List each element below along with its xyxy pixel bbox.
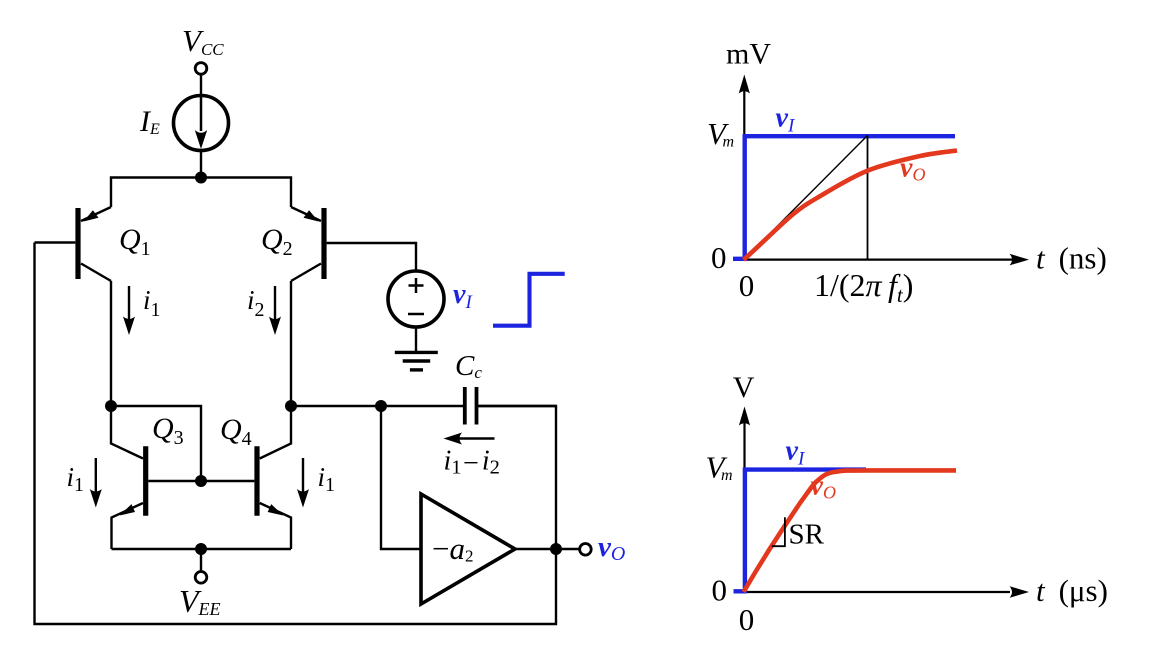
wire IE to tail node	[200, 151, 202, 178]
current arrow i2 (Q2 collector)	[274, 286, 276, 321]
op-amp A2	[421, 494, 515, 604]
y axis graph2	[743, 423, 745, 592]
wire amp output	[515, 548, 580, 550]
current source IE	[174, 96, 229, 151]
svg-text:0: 0	[711, 240, 727, 275]
tangent line graph1	[744, 136, 868, 260]
capacitor Cc	[463, 387, 467, 425]
wire Q1 base to feedback loop	[35, 241, 76, 243]
ground	[395, 351, 438, 354]
wire VCC to IE	[200, 75, 202, 96]
source vI	[388, 271, 444, 327]
wire Q3 Q4 base rail	[148, 480, 254, 482]
transistor Q1	[75, 208, 80, 279]
terminal VCC	[195, 63, 207, 75]
wire to VEE terminal	[200, 549, 202, 571]
output curve vO graph2	[744, 470, 957, 592]
current arrow i1 (Q3 emitter)	[95, 458, 97, 493]
svg-text:0: 0	[739, 602, 755, 637]
svg-text:0: 0	[739, 268, 755, 303]
SR slope mark	[772, 517, 785, 546]
wire emitter rail	[112, 548, 292, 550]
wire amp input	[381, 406, 421, 549]
junction output node	[550, 543, 562, 555]
junction Q4 collector node	[285, 400, 297, 412]
transistor Q4	[254, 446, 259, 516]
wire collector node rail	[291, 405, 463, 407]
junction amp input node	[375, 400, 387, 412]
wire Cc right to output node	[477, 406, 557, 549]
feedback wire output to Q1 base	[35, 243, 557, 625]
transistor Q2	[321, 208, 326, 279]
junction tail node	[195, 172, 207, 184]
svg-text:t (ns): t (ns)	[1036, 241, 1107, 276]
input step vI graph1	[733, 136, 955, 259]
current arrow i1 (Q4 emitter)	[302, 458, 304, 493]
junction base rail	[195, 475, 207, 487]
svg-text:t (μs): t (μs)	[1036, 573, 1108, 608]
wire vI to ground	[415, 327, 417, 351]
terminal vO	[580, 544, 592, 556]
marker line at 1/(2pi ft)	[867, 136, 869, 260]
wire tail rail	[111, 178, 291, 208]
current arrow i1 (Q1 collector)	[128, 286, 130, 321]
x axis graph1	[744, 259, 1012, 261]
terminal VEE	[195, 572, 207, 584]
svg-text:V: V	[733, 371, 755, 404]
junction emitter rail	[195, 543, 207, 555]
wire Q2 base to vI	[327, 243, 416, 272]
output curve vO graph1	[744, 151, 958, 260]
svg-text:SR: SR	[789, 519, 825, 551]
x axis graph2	[745, 591, 1011, 593]
input step vI graph2	[734, 470, 867, 592]
svg-text:0: 0	[712, 573, 728, 608]
input step waveform	[493, 274, 565, 326]
junction Q3 collector node	[105, 400, 117, 412]
svg-text:mV: mV	[726, 37, 771, 70]
current arrow i1-i2	[454, 437, 495, 439]
wire Q1 collector down	[110, 281, 112, 406]
wire Q2 collector down	[290, 281, 292, 406]
transistor Q3	[143, 446, 148, 516]
wire Q3 collector node to bases (diode connection)	[111, 406, 201, 481]
y axis graph1	[743, 91, 745, 260]
